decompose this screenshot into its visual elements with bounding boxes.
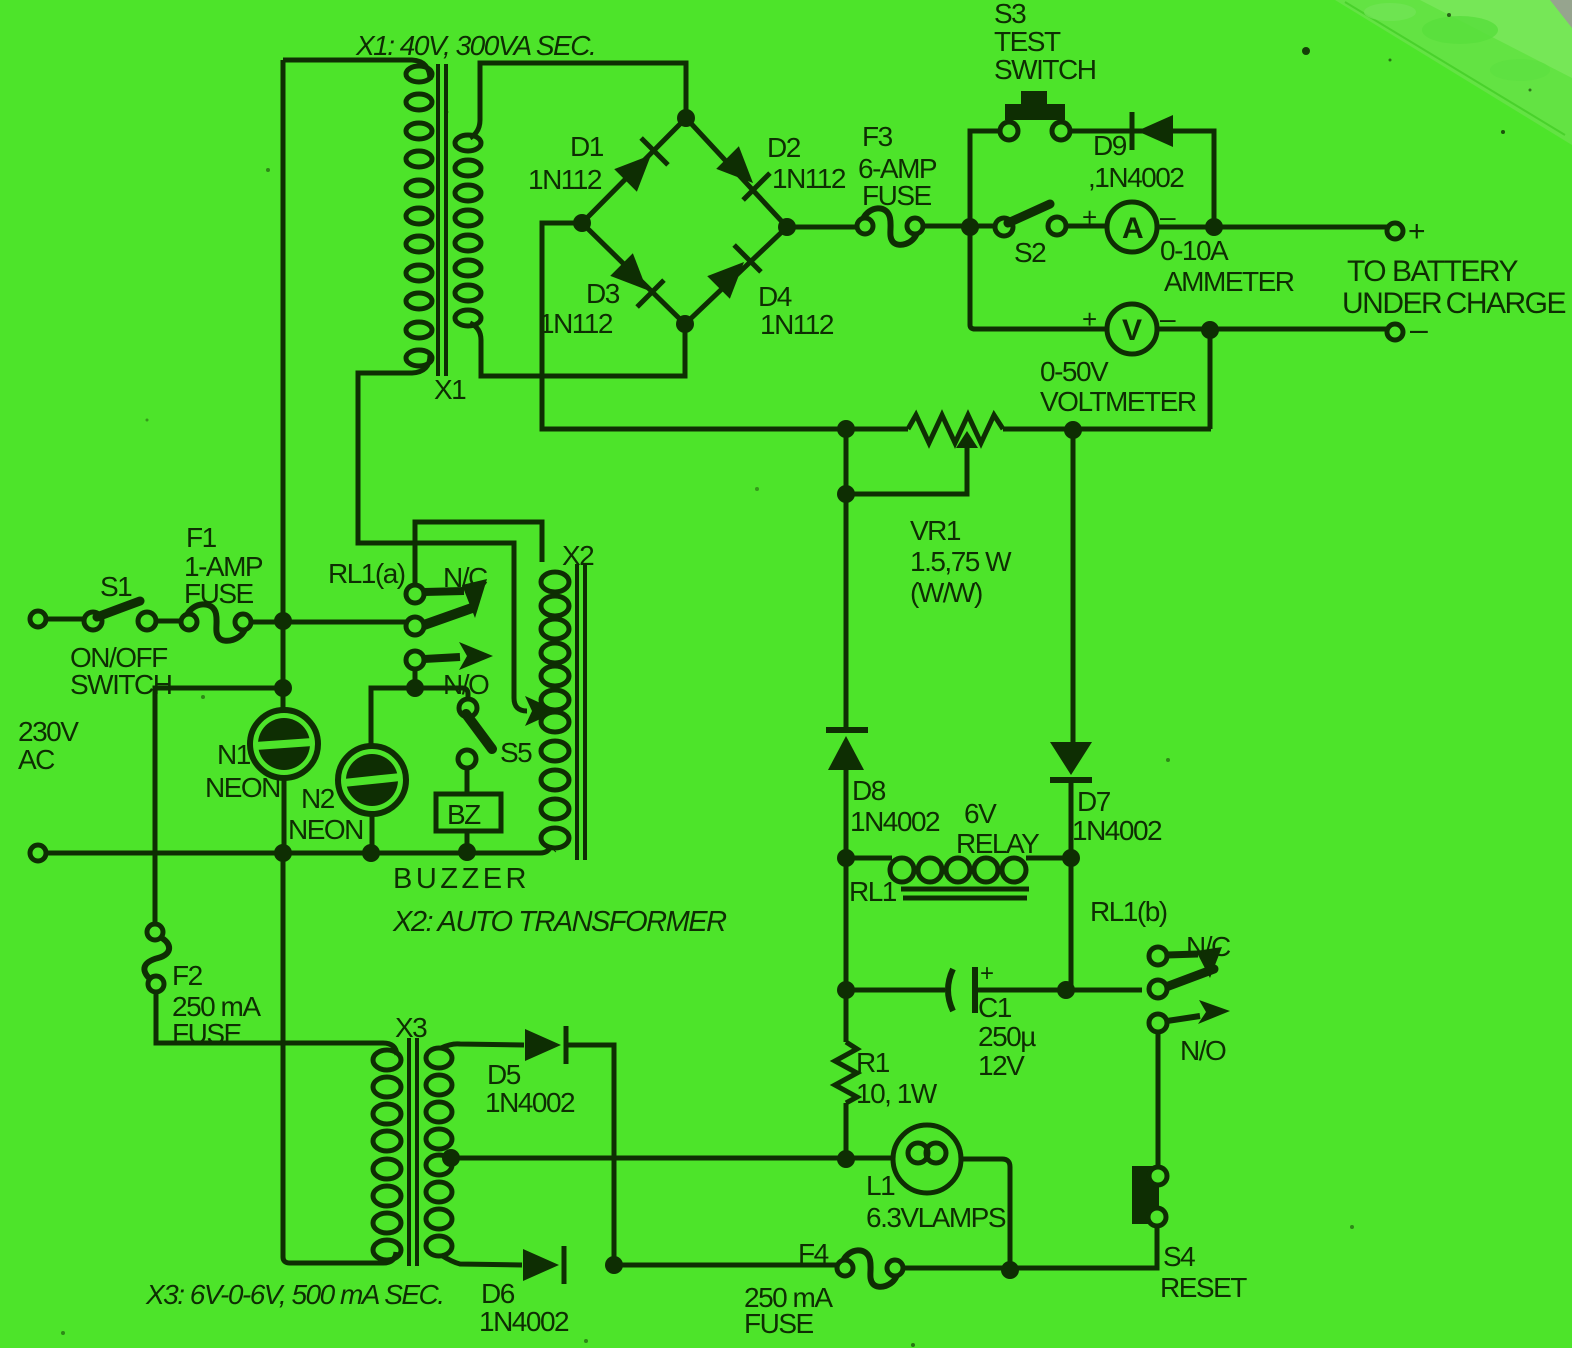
wire N/O to S4 — [1156, 1032, 1161, 1168]
switch S5 blade — [466, 714, 492, 749]
wire N/O junction — [413, 669, 418, 688]
contact RL1(b) pivot — [1166, 969, 1214, 987]
wire N1 bottom lead — [282, 778, 287, 853]
wire bridge right to F3 — [787, 225, 857, 230]
svg-text:1N112: 1N112 — [528, 164, 602, 195]
switch S4 body — [1132, 1166, 1159, 1224]
wire C1 left lead — [846, 988, 945, 993]
node R1 bottom — [837, 1150, 855, 1168]
wire VR1 to voltmeter branch — [1003, 427, 1211, 432]
wire D5 to D6 junction — [566, 1045, 614, 1265]
node relay left — [837, 849, 855, 867]
wire C1 left down to R1 — [844, 990, 849, 1042]
wire F2 branch — [155, 688, 283, 924]
wire F3 to S2 — [923, 224, 996, 229]
resistor R1 — [835, 1042, 857, 1103]
wire AC neutral rail — [46, 845, 551, 853]
wire X3 secondary top lead — [441, 1044, 524, 1048]
ammeter U-A — [1107, 202, 1157, 252]
svg-text:TEST: TEST — [994, 26, 1061, 57]
svg-text:(W/W): (W/W) — [910, 577, 982, 608]
svg-text:0-50V: 0-50V — [1040, 356, 1109, 387]
svg-text:S2: S2 — [1014, 237, 1046, 268]
wire X1 secondary top lead — [470, 63, 686, 138]
svg-text:R1: R1 — [856, 1047, 890, 1078]
svg-text:X1: X1 — [434, 374, 466, 405]
wire D8 to relay node — [844, 768, 849, 858]
svg-text:NEON: NEON — [205, 772, 280, 803]
wire voltmeter branch down to VR1 line — [1208, 330, 1213, 429]
svg-text:S1: S1 — [100, 571, 132, 602]
svg-text:RELAY: RELAY — [956, 828, 1040, 859]
wire D7 branch down to D7 — [1071, 430, 1076, 744]
rheostat VR1 wiper — [956, 431, 978, 448]
node X1 primary branch — [274, 612, 292, 630]
svg-text:AMMETER: AMMETER — [1164, 266, 1294, 297]
wire S5 to buzzer — [465, 768, 470, 794]
svg-text:+: + — [1082, 304, 1096, 334]
svg-text:1N4002: 1N4002 — [479, 1306, 569, 1337]
svg-text:S4: S4 — [1163, 1241, 1195, 1272]
node N/O junction — [406, 679, 424, 697]
node rail N1 — [274, 844, 292, 862]
node D5-D6 junction — [605, 1256, 623, 1274]
node rail buzzer — [458, 843, 476, 861]
svg-text:RESET: RESET — [1160, 1272, 1247, 1303]
node C1 right — [1057, 981, 1075, 999]
svg-text:F1: F1 — [186, 522, 217, 553]
wire F1 to RL1(a) — [251, 620, 407, 625]
wire ammeter to battery plus — [1157, 225, 1387, 230]
wire N/O to N2 — [371, 688, 415, 746]
svg-text:NEON: NEON — [288, 814, 363, 845]
svg-text:S3: S3 — [994, 0, 1026, 29]
svg-text:BZ: BZ — [447, 799, 481, 830]
svg-text:D6: D6 — [481, 1278, 515, 1309]
terminal AC live — [30, 611, 46, 627]
svg-text:1.5,75 W: 1.5,75 W — [910, 546, 1012, 577]
svg-text:250µ: 250µ — [978, 1021, 1036, 1052]
node X3 center tap — [442, 1149, 460, 1167]
switch S3 pushbutton — [1021, 91, 1047, 105]
contact RL1(b) N/C — [1149, 947, 1167, 965]
switch S1 blade — [97, 601, 140, 617]
wire S4 to F4 line — [1010, 1226, 1157, 1268]
wire F4 to junction — [903, 1266, 1010, 1271]
capacitor C1 — [948, 969, 953, 1011]
svg-text:FUSE: FUSE — [862, 180, 932, 211]
transformer X1 secondary winding — [455, 135, 481, 151]
svg-text:AC: AC — [18, 744, 55, 775]
node S2 branch — [961, 218, 979, 236]
terminal battery plus — [1387, 223, 1403, 239]
svg-text:V: V — [1122, 314, 1142, 347]
wire relay left down to C1 — [844, 858, 849, 990]
svg-text:RL1(a): RL1(a) — [328, 558, 405, 589]
node VR1 wiper join — [837, 485, 855, 503]
node relay right — [1062, 849, 1080, 867]
wire buzzer to rail — [465, 831, 470, 852]
scan artifact: lighter paper corner top-right — [1335, 0, 1572, 145]
voltmeter U-V — [1107, 304, 1157, 354]
wire S2 node to test switch — [970, 131, 1000, 227]
svg-text:X2: AUTO TRANSFORMER: X2: AUTO TRANSFORMER — [392, 906, 727, 938]
svg-text:D3: D3 — [586, 278, 620, 309]
diode D1 — [612, 138, 668, 194]
node D7 branch — [1064, 421, 1082, 439]
wire relay right down to C1 line — [1069, 858, 1074, 990]
svg-text:N1: N1 — [217, 739, 251, 770]
wire center tap to lamp — [451, 1156, 894, 1161]
buzzer BZ box — [436, 794, 501, 831]
transformer X1 primary winding — [406, 66, 432, 82]
switch S1 contacts — [84, 612, 102, 630]
wire N/C up to X2 top — [415, 522, 542, 585]
node voltmeter minus branch — [1201, 321, 1219, 339]
wire AC live to S1 — [46, 617, 85, 622]
node F2 branch — [274, 679, 292, 697]
svg-text:D8: D8 — [852, 775, 886, 806]
svg-text:+: + — [1408, 215, 1425, 248]
diode D7 — [1050, 742, 1092, 775]
node bridge top — [677, 109, 695, 127]
wire S2 to ammeter — [1066, 224, 1108, 229]
svg-text:10, 1W: 10, 1W — [856, 1078, 938, 1109]
wire N1 top lead — [281, 621, 286, 710]
wire X1 primary top lead — [283, 60, 430, 80]
svg-text:X3: X3 — [395, 1012, 427, 1043]
fuse F2 — [147, 924, 163, 940]
svg-text:N2: N2 — [301, 783, 335, 814]
svg-text:F4: F4 — [798, 1238, 829, 1269]
diode D4 — [705, 245, 761, 301]
transformer X1 core — [436, 64, 440, 376]
svg-text:VR1: VR1 — [910, 515, 961, 546]
transformer X3 secondary winding — [426, 1048, 452, 1068]
wire S2 node to voltmeter — [970, 227, 1108, 329]
wire bridge left vertex to VR1 line — [542, 223, 908, 429]
rheostat VR1 zigzag — [908, 415, 1003, 443]
svg-text:N/C: N/C — [443, 562, 488, 593]
wire X2 tap arrow — [525, 696, 558, 726]
wire X2 bottom lead — [551, 845, 556, 852]
svg-text:D9: D9 — [1093, 130, 1127, 161]
svg-text:1N4002: 1N4002 — [1072, 815, 1162, 846]
svg-text:+: + — [980, 960, 993, 987]
svg-text:1N112: 1N112 — [760, 309, 834, 340]
fuse F4 — [837, 1260, 853, 1276]
switch S3 contacts — [1000, 122, 1018, 140]
switch S2 contacts — [995, 218, 1013, 236]
svg-text:C1: C1 — [978, 992, 1012, 1023]
svg-text:D1: D1 — [570, 131, 604, 162]
svg-text:D2: D2 — [767, 132, 801, 163]
svg-text:1N112: 1N112 — [539, 308, 613, 339]
wire X3 secondary bottom lead — [441, 1255, 522, 1265]
svg-text:X3: 6V-0-6V, 500 mA SEC.: X3: 6V-0-6V, 500 mA SEC. — [145, 1279, 444, 1310]
wire lamp to F4 line — [961, 1159, 1010, 1268]
contact RL1(a) N/O — [406, 651, 424, 669]
switch S4 contacts — [1149, 1167, 1167, 1185]
svg-text:L1: L1 — [866, 1170, 895, 1201]
diode D3 — [608, 251, 664, 307]
svg-text:1N112: 1N112 — [772, 163, 846, 194]
fuse F3 — [857, 218, 873, 234]
neon N2 — [338, 746, 406, 814]
transformer X2 core — [575, 564, 579, 860]
diode D9 — [1132, 112, 1173, 150]
switch S5 contacts — [459, 699, 477, 717]
wire X1-rail down to X3 primary bottom — [283, 853, 396, 1263]
svg-text:–: – — [1410, 311, 1428, 347]
svg-text:D5: D5 — [487, 1059, 521, 1090]
fuse F1 — [181, 614, 197, 630]
diode D8 — [826, 727, 868, 733]
wire N/O to S5 — [415, 688, 468, 699]
node D9 return — [1205, 218, 1223, 236]
scan speckles — [1302, 47, 1310, 55]
svg-text:A: A — [1122, 212, 1143, 245]
svg-text:F2: F2 — [172, 960, 203, 991]
svg-text:FUSE: FUSE — [744, 1308, 814, 1339]
node rail N2 — [362, 844, 380, 862]
svg-text:1N4002: 1N4002 — [485, 1087, 575, 1118]
diode D6 — [523, 1246, 564, 1284]
node VR1 left — [837, 420, 855, 438]
wire S3 to D9 to ammeter line — [1070, 131, 1214, 227]
svg-text:F3: F3 — [862, 121, 893, 152]
wire R1 to center tap line — [844, 1103, 849, 1159]
lamp L1 — [893, 1125, 961, 1193]
wire S1 to F1 — [155, 619, 181, 624]
relay RL1 core — [901, 887, 1029, 892]
svg-text:N/C: N/C — [1186, 931, 1231, 962]
svg-text:1N4002: 1N4002 — [850, 806, 940, 837]
wire F2 to X3 primary top — [156, 992, 397, 1055]
wire C1 right lead — [975, 988, 1142, 993]
transformer X2 winding lower — [541, 712, 569, 732]
node bridge right — [778, 218, 796, 236]
svg-text:RL1(b): RL1(b) — [1090, 896, 1167, 927]
svg-text:N/O: N/O — [1180, 1035, 1226, 1066]
svg-text:D4: D4 — [758, 281, 792, 312]
contact RL1(a) pivot — [424, 608, 472, 625]
svg-text:D7: D7 — [1077, 786, 1111, 817]
svg-text:TO BATTERY: TO BATTERY — [1347, 255, 1519, 288]
wire D6 junction to F4 — [614, 1265, 838, 1268]
svg-text:+: + — [1082, 202, 1096, 232]
svg-text:6.3VLAMPS: 6.3VLAMPS — [866, 1202, 1006, 1233]
svg-text:12V: 12V — [978, 1050, 1025, 1081]
wire X1 primary bottom lead to X2 tap — [358, 355, 527, 711]
transformer X2 winding upper — [541, 572, 569, 592]
node C1 left — [837, 981, 855, 999]
wire VR1 left down to D8 — [844, 429, 849, 731]
svg-text:FUSE: FUSE — [184, 578, 254, 609]
switch S2 blade — [1008, 204, 1050, 223]
svg-text:X1: 40V, 300VA SEC.: X1: 40V, 300VA SEC. — [355, 30, 595, 61]
svg-text:6V: 6V — [964, 798, 997, 829]
neon N1 — [250, 710, 318, 778]
diode D5 — [525, 1026, 566, 1064]
svg-text:UNDER CHARGE: UNDER CHARGE — [1342, 287, 1566, 320]
wire X1 primary left vertical to S1 row — [281, 60, 286, 621]
svg-text:SWITCH: SWITCH — [994, 54, 1095, 85]
terminal AC neutral — [30, 845, 46, 861]
node bridge left — [573, 214, 591, 232]
wire N2 bottom lead — [370, 814, 375, 853]
svg-text:0-10A: 0-10A — [1160, 235, 1229, 266]
wire X1 secondary bottom lead — [470, 323, 685, 376]
svg-text:,1N4002: ,1N4002 — [1088, 162, 1184, 193]
svg-text:230V: 230V — [18, 716, 79, 747]
node lamp-S4-F4 junction — [1001, 1261, 1019, 1279]
contact RL1(b) N/O — [1149, 1014, 1167, 1032]
svg-text:BUZZER: BUZZER — [393, 863, 530, 895]
svg-text:RL1: RL1 — [849, 876, 897, 907]
node bridge bottom — [676, 315, 694, 333]
svg-text:VOLTMETER: VOLTMETER — [1040, 386, 1196, 417]
svg-text:S5: S5 — [500, 737, 532, 768]
terminal battery minus — [1387, 324, 1403, 340]
diode D2 — [714, 144, 770, 200]
wire D7 to relay node — [1069, 780, 1074, 858]
wire bridge diamond — [582, 118, 787, 324]
contact RL1(a) N/C — [406, 585, 424, 603]
transformer X3 primary winding — [373, 1050, 401, 1070]
transformer X3 core — [407, 1038, 411, 1266]
wire voltmeter to battery minus — [1157, 327, 1388, 332]
relay RL1 coil — [846, 856, 892, 861]
